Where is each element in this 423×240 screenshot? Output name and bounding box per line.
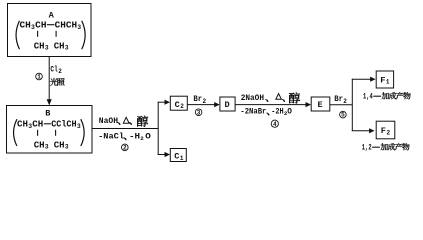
svg-text:F: F <box>380 75 385 85</box>
svg-text:F: F <box>381 126 386 136</box>
svg-text:2NaOH: 2NaOH <box>241 95 265 103</box>
box D <box>220 97 235 111</box>
box F2 <box>376 121 395 139</box>
svg-text:2: 2 <box>387 130 391 137</box>
box A (2,3-dimethylbutane) <box>8 4 92 57</box>
svg-text:2: 2 <box>203 98 207 105</box>
box E <box>311 97 330 111</box>
svg-text:1,2: 1,2 <box>362 145 372 153</box>
svg-text:CH: CH <box>17 120 28 130</box>
wire fork2 to F2 <box>352 130 370 132</box>
svg-text:3: 3 <box>77 123 81 130</box>
svg-text:CHCH: CHCH <box>55 21 77 31</box>
step 1 circled <box>36 73 43 80</box>
svg-text:2: 2 <box>180 103 184 110</box>
svg-text:1,4: 1,4 <box>363 94 373 102</box>
svg-text:3: 3 <box>197 109 201 116</box>
step 3 circled <box>195 109 202 116</box>
svg-text:3: 3 <box>45 144 49 151</box>
svg-text:Br: Br <box>193 94 202 104</box>
svg-text:-2NaBr: -2NaBr <box>240 109 266 117</box>
fork2 vertical wire <box>351 79 353 131</box>
svg-text:CH: CH <box>34 41 45 51</box>
wire D to E <box>235 104 306 106</box>
bond bars A <box>37 31 39 37</box>
svg-text:-2H: -2H <box>271 109 284 117</box>
svg-text:3: 3 <box>65 45 69 52</box>
svg-text:CH: CH <box>32 120 43 130</box>
parens A <box>16 21 19 50</box>
svg-text:B: B <box>45 109 50 119</box>
box B (2-chloro-2,3-dimethylbutane) <box>7 106 93 154</box>
wire E to fork2 <box>330 104 353 106</box>
svg-text:D: D <box>225 100 230 110</box>
svg-text:3: 3 <box>45 45 49 52</box>
label guangzhao (light) <box>50 78 58 86</box>
svg-text:E: E <box>318 100 323 110</box>
wire fork to C1 <box>158 154 165 156</box>
svg-text:C: C <box>174 152 179 162</box>
step 5 circled <box>340 111 347 118</box>
svg-text:3: 3 <box>77 24 81 31</box>
svg-text:2: 2 <box>58 68 62 75</box>
wire B to fork <box>92 128 158 130</box>
svg-text:CH: CH <box>34 140 45 150</box>
parens B <box>14 119 17 146</box>
wire fork to C2 <box>158 101 165 103</box>
svg-text:Cl: Cl <box>50 64 57 74</box>
svg-text:CH: CH <box>35 21 46 31</box>
svg-text:4: 4 <box>273 121 277 128</box>
svg-text:2: 2 <box>140 135 144 142</box>
svg-text:1: 1 <box>180 155 184 162</box>
svg-text:O: O <box>145 133 151 141</box>
svg-text:1: 1 <box>37 74 41 81</box>
svg-text:-H: -H <box>129 133 140 141</box>
box F1 <box>376 71 393 88</box>
svg-text:O: O <box>287 109 292 117</box>
svg-text:1: 1 <box>386 79 390 86</box>
svg-text:C: C <box>175 100 180 110</box>
svg-text:CH: CH <box>54 41 65 51</box>
wire A to B <box>48 57 50 105</box>
svg-text:5: 5 <box>341 112 345 119</box>
svg-text:Br: Br <box>334 94 343 104</box>
wire C2 to D <box>187 104 214 106</box>
svg-text:CClCH: CClCH <box>51 120 76 130</box>
box C2 <box>170 96 187 110</box>
step 2 circled <box>122 144 129 151</box>
svg-text:2: 2 <box>123 145 127 152</box>
fork vertical wire <box>157 102 159 155</box>
step 4 circled <box>271 120 278 127</box>
svg-text:2: 2 <box>343 98 347 105</box>
svg-text:CH: CH <box>54 140 65 150</box>
bond bars B <box>37 130 39 136</box>
svg-text:A: A <box>49 10 55 20</box>
svg-text:-NaCl: -NaCl <box>98 133 124 141</box>
svg-text:NaOH: NaOH <box>99 118 119 126</box>
wire fork2 to F1 <box>352 78 371 80</box>
svg-text:CH: CH <box>20 21 31 31</box>
box C1 <box>170 149 186 162</box>
svg-text:3: 3 <box>65 144 69 151</box>
